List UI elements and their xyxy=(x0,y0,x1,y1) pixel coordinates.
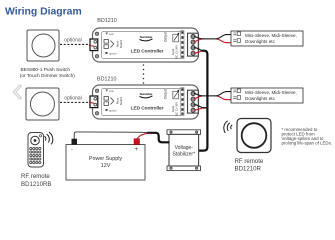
svg-text:LED Controller: LED Controller xyxy=(131,48,164,54)
U2 terminal block xyxy=(188,90,199,113)
U1 case xyxy=(93,28,199,62)
svg-text:Switch: Switch xyxy=(119,39,123,48)
R2 wireless signal arcs xyxy=(224,121,232,133)
U1 terminal 3 xyxy=(191,46,195,50)
svg-text:Wiring Diagram: Wiring Diagram xyxy=(5,6,82,17)
svg-text:Switch: Switch xyxy=(119,96,123,105)
U2 terminal 4 xyxy=(191,108,195,112)
svg-text:DC 12-36V: DC 12-36V xyxy=(175,45,179,59)
wire: PSU negative (black thin) to junction xyxy=(74,132,147,139)
svg-text:BES880-1 Push Switch: BES880-1 Push Switch xyxy=(21,67,71,73)
dashed wire: switch S2 to controller U2 xyxy=(60,101,90,103)
PS1 box xyxy=(66,145,145,181)
svg-text:LED Controller: LED Controller xyxy=(131,105,164,111)
U2 terminal 3 xyxy=(191,103,195,107)
sleeve box 1 plug icons xyxy=(233,32,240,42)
svg-text:Downlights etc: Downlights etc xyxy=(245,39,276,44)
R2 body xyxy=(237,119,271,153)
U1 terminal 4 xyxy=(191,51,195,55)
svg-text:optional: optional xyxy=(64,96,82,102)
continuation dots xyxy=(143,64,145,84)
U2 option label xyxy=(106,109,108,111)
VR1 bottom flange xyxy=(167,166,201,171)
R1 wireless signal arcs xyxy=(44,132,52,144)
svg-text:Voltage-: Voltage- xyxy=(175,145,194,151)
LED controller U2 xyxy=(89,85,199,119)
svg-text:Aux: Aux xyxy=(109,89,114,93)
U1 terminal 2 xyxy=(191,40,195,44)
svg-text:-: - xyxy=(71,147,73,153)
U1 push input connector J1 xyxy=(90,39,98,51)
PS1 negative terminal xyxy=(72,139,78,145)
U1 inner panel xyxy=(102,32,184,59)
U2 terminal 1 xyxy=(191,91,195,95)
wire: U1 input to power cable (black) xyxy=(194,48,202,51)
svg-text:12V: 12V xyxy=(101,163,111,169)
svg-text:Power Supply: Power Supply xyxy=(89,156,123,162)
output cable 2 merged segment xyxy=(203,95,218,97)
U1 option label xyxy=(106,52,108,54)
svg-text:(or Touch Dimmer Switch): (or Touch Dimmer Switch) xyxy=(20,73,75,79)
wire: U1 output - (red) to sleeve box 1 xyxy=(194,39,237,43)
voltage stabilizer VR1 xyxy=(167,130,201,171)
U1 screw top-left xyxy=(95,32,98,35)
power cable: PSU junction to stabilizer left xyxy=(147,133,170,143)
U1 terminal 1 xyxy=(191,34,195,38)
svg-text:BD1210R: BD1210R xyxy=(235,166,262,173)
R1 buttons xyxy=(30,147,41,163)
svg-text:BD1210: BD1210 xyxy=(97,18,116,24)
wire: PSU positive (red) to junction xyxy=(137,133,150,139)
svg-text:Mini-Sleeve, Midi-Sleeve,: Mini-Sleeve, Midi-Sleeve, xyxy=(245,33,297,38)
U2 dimmer component box xyxy=(173,91,179,99)
chevron back arrow xyxy=(14,86,20,98)
U1 aux label xyxy=(106,33,109,35)
U1 push-switch input plugs xyxy=(104,40,114,49)
R1 dial xyxy=(31,136,40,145)
sleeve box 2 plug icons xyxy=(233,89,240,99)
svg-text:Sunricher: Sunricher xyxy=(140,35,154,39)
svg-text:prolong life-span of LEDs.: prolong life-span of LEDs. xyxy=(282,141,333,146)
push switch S1 box xyxy=(27,30,59,61)
RF remote R1 xyxy=(28,133,44,168)
wire: U2 output + (black) to sleeve box 2 xyxy=(194,92,233,96)
U2 screw bottom-left xyxy=(95,112,98,115)
wire: U2 input to power cable (black) xyxy=(194,105,207,108)
svg-text:option: option xyxy=(109,108,117,112)
R1 body xyxy=(28,133,44,168)
push switch S2 box xyxy=(26,88,59,120)
svg-text:Mini-Sleeve, Midi-Sleeve,: Mini-Sleeve, Midi-Sleeve, xyxy=(245,90,297,95)
R1 led xyxy=(39,135,41,137)
U1 screw bottom-left xyxy=(95,55,98,58)
R2 dial ring xyxy=(242,123,267,148)
svg-text:DC 12-36V: DC 12-36V xyxy=(175,102,179,116)
svg-text:optional: optional xyxy=(64,38,82,44)
power cable: controllers down to stabilizer xyxy=(199,51,208,151)
U2 aux label xyxy=(106,90,109,92)
red stub wire to J2 xyxy=(89,102,94,103)
VR1 top flange xyxy=(167,130,201,135)
wire: U2 output - (red) to sleeve box 2 xyxy=(194,96,237,100)
U2 pin strip xyxy=(181,88,184,116)
svg-text:BD1210RB: BD1210RB xyxy=(21,181,52,188)
U1 dimmer component box xyxy=(173,34,179,42)
wire: U2 input to power cable (red) xyxy=(194,108,207,110)
U1 terminal block xyxy=(188,33,199,56)
sleeve box 2 xyxy=(231,88,303,103)
VR1 screws xyxy=(170,131,172,133)
power supply PS1 xyxy=(66,139,145,180)
U1 pin strip xyxy=(181,31,184,59)
U2 push-switch input plugs xyxy=(104,97,114,106)
red stub wire to J1 xyxy=(89,45,94,46)
svg-text:Downlights etc: Downlights etc xyxy=(245,96,276,101)
svg-text:Output: Output xyxy=(164,32,168,42)
svg-text:BD1210: BD1210 xyxy=(97,76,116,82)
U2 push input connector J2 xyxy=(90,96,98,108)
wire: U1 output + (black) to sleeve box 1 xyxy=(194,35,233,39)
output cable 1 merged segment xyxy=(203,38,218,40)
U2 input cable merged segment xyxy=(203,107,207,109)
U2 screw top-left xyxy=(95,89,98,92)
dashed wire: switch S1 to controller U1 xyxy=(60,43,90,45)
PS1 positive terminal xyxy=(134,139,140,145)
wire: U1 input to power cable (red) xyxy=(194,51,202,53)
RF remote R2 xyxy=(237,119,271,153)
svg-text:RF remote: RF remote xyxy=(21,173,50,180)
U2 terminal 2 xyxy=(191,97,195,101)
svg-text:+: + xyxy=(135,147,139,153)
svg-text:option: option xyxy=(109,51,117,55)
svg-text:RF remote: RF remote xyxy=(235,158,264,165)
sleeve box 1 xyxy=(231,31,303,46)
svg-text:Aux: Aux xyxy=(109,32,114,36)
svg-text:Sunricher: Sunricher xyxy=(140,92,154,96)
svg-text:Stabilizer*: Stabilizer* xyxy=(173,152,196,158)
VR1 body xyxy=(169,134,199,166)
U2 inner panel xyxy=(102,89,184,116)
note text xyxy=(282,127,333,146)
U2 case xyxy=(93,85,199,119)
svg-text:Output: Output xyxy=(164,89,168,99)
LED controller U1 xyxy=(89,28,199,62)
